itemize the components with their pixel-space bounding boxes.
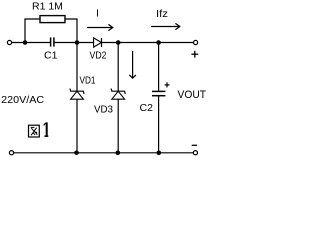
diode VD2 <box>94 38 102 47</box>
node VD1 bottom <box>74 151 79 156</box>
svg-text:I: I <box>96 7 99 19</box>
svg-text:VOUT: VOUT <box>178 89 207 101</box>
wire VD3 bottom <box>117 99 119 153</box>
zener diode VD3 <box>111 89 125 100</box>
node B junction VD2-VD3 <box>116 40 121 45</box>
svg-text:C2: C2 <box>140 102 154 114</box>
node C junction C2 top <box>156 40 161 45</box>
svg-text:VD2: VD2 <box>90 49 107 61</box>
svg-text:R1 1M: R1 1M <box>32 0 63 12</box>
wire VD3 top <box>117 43 119 92</box>
svg-text:Ifz: Ifz <box>156 8 168 20</box>
svg-text:VD1: VD1 <box>80 74 96 86</box>
wire R1 branch right <box>65 19 77 43</box>
node VD3 bottom <box>116 151 121 156</box>
capacitor C1 <box>51 37 54 46</box>
label output plus <box>191 51 198 58</box>
current arrow Ifz <box>151 23 180 29</box>
current arrow down <box>129 51 136 78</box>
svg-text:C1: C1 <box>44 50 58 62</box>
wire R1 branch <box>25 19 40 43</box>
node A junction C1-R1-VD1 <box>75 40 80 45</box>
wire VD1 bottom <box>76 99 78 153</box>
svg-text:220V/AC: 220V/AC <box>1 94 44 106</box>
wire top rail left segment <box>12 42 50 44</box>
label figure 图1 <box>29 125 40 137</box>
capacitor C2 polarized <box>152 91 165 95</box>
svg-text:VD3: VD3 <box>94 104 113 116</box>
terminal input bottom <box>9 151 13 155</box>
wire top rail right segment <box>102 42 194 44</box>
wire VD1 top <box>76 43 78 92</box>
label C2 plus <box>165 82 170 87</box>
terminal output minus <box>193 151 197 155</box>
terminal output plus <box>194 40 198 44</box>
zener diode VD1 <box>70 89 84 100</box>
wire bottom rail <box>14 152 194 154</box>
wire top rail middle segment <box>54 42 93 44</box>
label output minus <box>192 144 197 146</box>
node C2 bottom <box>157 151 162 156</box>
current arrow I <box>87 24 113 30</box>
wire C2 top <box>158 43 160 92</box>
resistor R1 <box>40 16 65 23</box>
terminal input top <box>7 40 11 44</box>
node input junction <box>23 40 28 45</box>
wire C2 bottom <box>158 96 160 153</box>
